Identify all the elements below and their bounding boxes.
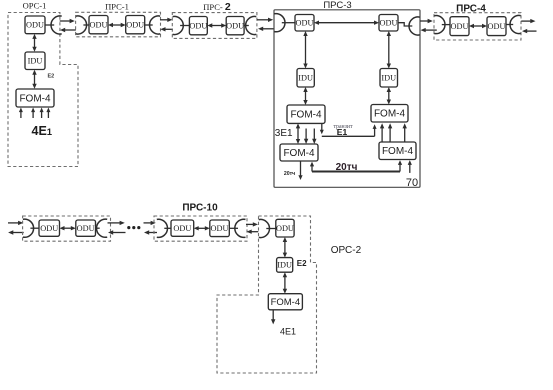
svg-text:70: 70 bbox=[406, 177, 418, 189]
svg-text:ПРС- 2: ПРС- 2 bbox=[203, 1, 231, 13]
svg-text:ПРС-1: ПРС-1 bbox=[105, 1, 129, 11]
svg-text:ODU: ODU bbox=[276, 224, 294, 233]
svg-text:ОРС-1: ОРС-1 bbox=[23, 1, 47, 11]
svg-text:IDU: IDU bbox=[381, 74, 396, 83]
svg-text:ОРС-2: ОРС-2 bbox=[331, 245, 362, 256]
svg-text:IDU: IDU bbox=[298, 74, 313, 83]
svg-text:ODU: ODU bbox=[380, 19, 398, 28]
svg-text:ODU: ODU bbox=[296, 19, 314, 28]
svg-text:ODU: ODU bbox=[211, 224, 229, 233]
svg-text:FOM-4: FOM-4 bbox=[382, 146, 414, 157]
svg-text:FOM-4: FOM-4 bbox=[271, 297, 301, 308]
svg-text:20тч: 20тч bbox=[336, 162, 358, 173]
svg-text:ODU: ODU bbox=[40, 224, 58, 233]
svg-text:FOM-4: FOM-4 bbox=[374, 109, 406, 120]
svg-text:20тч: 20тч bbox=[284, 171, 295, 177]
svg-text:ODU: ODU bbox=[488, 22, 506, 31]
svg-text:ODU: ODU bbox=[189, 21, 207, 30]
svg-text:ПРС-4: ПРС-4 bbox=[456, 4, 486, 15]
svg-text:ПРС-10: ПРС-10 bbox=[182, 203, 218, 214]
svg-text:FOM-4: FOM-4 bbox=[283, 148, 315, 159]
svg-text:Е2: Е2 bbox=[297, 259, 307, 268]
svg-text:Е1: Е1 bbox=[337, 127, 348, 137]
svg-text:ODU: ODU bbox=[451, 22, 469, 31]
svg-text:IDU: IDU bbox=[277, 261, 292, 270]
svg-text:ODU: ODU bbox=[226, 21, 244, 30]
svg-text:ODU: ODU bbox=[126, 20, 144, 29]
svg-text:ODU: ODU bbox=[173, 224, 191, 233]
svg-text:ПРС-3: ПРС-3 bbox=[323, 0, 351, 11]
svg-text:4Е1: 4Е1 bbox=[280, 327, 296, 337]
svg-text:ODU: ODU bbox=[90, 20, 108, 29]
svg-text:Е2: Е2 bbox=[48, 74, 55, 80]
svg-text:IDU: IDU bbox=[28, 57, 43, 66]
svg-text:ODU: ODU bbox=[77, 224, 95, 233]
svg-text:ODU: ODU bbox=[26, 21, 44, 30]
svg-text:FOM-4: FOM-4 bbox=[19, 93, 51, 104]
svg-text:FOM-4: FOM-4 bbox=[290, 110, 322, 121]
svg-text:4Е1: 4Е1 bbox=[32, 124, 53, 138]
svg-text:3Е1: 3Е1 bbox=[275, 128, 293, 139]
